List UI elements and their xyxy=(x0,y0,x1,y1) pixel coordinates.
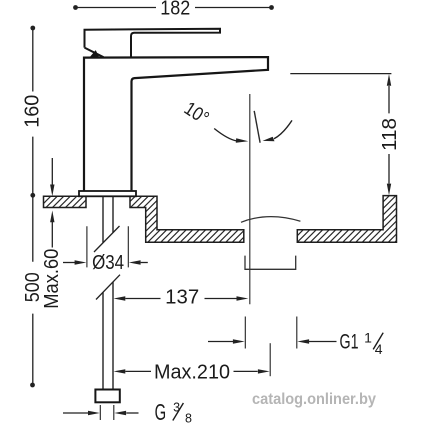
dimension Ø34 right arrow xyxy=(141,262,148,264)
svg-text:Ø34: Ø34 xyxy=(92,252,124,274)
dimension 160 line with end dots xyxy=(32,28,34,195)
dimension 118 top arrow xyxy=(387,74,391,86)
svg-text:182: 182 xyxy=(160,0,190,20)
dimension Max.210 right arrow xyxy=(258,369,270,373)
dimension 182 line with end dots xyxy=(76,7,272,9)
shared dot at deck level xyxy=(30,193,35,198)
118 reference line from spout outlet xyxy=(290,73,391,75)
dimension 160 top dot xyxy=(30,26,35,31)
G1 1/4 label xyxy=(340,330,384,358)
dimension 118 bottom arrow xyxy=(387,184,391,196)
faucet base flange xyxy=(79,191,136,196)
10 degree slanted stream line xyxy=(254,111,260,143)
G3/8 label xyxy=(155,399,192,424)
svg-text:4: 4 xyxy=(375,341,383,357)
dimension 182 right dot xyxy=(269,5,274,10)
countertop left piece (hatched) xyxy=(44,196,87,207)
dimension 137 line xyxy=(125,298,236,300)
dimension Max.210 left arrow xyxy=(114,369,126,373)
supply pipe lower segment xyxy=(103,282,113,390)
dimension 137 right arrow xyxy=(237,296,249,300)
dimension G1 1/4 left arrow xyxy=(208,341,233,343)
svg-text:Max.60: Max.60 xyxy=(41,249,63,309)
pipe break slash upper xyxy=(94,226,120,252)
10 degree right arc arrow xyxy=(274,120,292,138)
dimension G1 1/4 right arrow xyxy=(309,341,337,343)
dimension Ø34 extension lines xyxy=(87,226,128,267)
dimension 118 line xyxy=(388,86,390,184)
lever tip triangle xyxy=(91,51,99,57)
faucet body outline xyxy=(84,57,268,191)
countertop middle piece with basin step (hatched) xyxy=(130,196,244,242)
dimension G1 1/4 extension lines xyxy=(245,317,296,349)
10 degree left arc arrow xyxy=(214,129,236,141)
stream centerline xyxy=(249,94,251,304)
dimension 182 left dot xyxy=(73,5,78,10)
basin bottom arc xyxy=(241,217,300,223)
countertop right piece with raised edge (hatched) xyxy=(297,196,396,243)
supply pipe upper segment xyxy=(103,197,113,243)
dimension Max.60 upper arrow (down) xyxy=(51,158,53,185)
dimension 137 left arrow xyxy=(114,296,126,300)
dimension G3/8 extension lines xyxy=(100,405,114,420)
dimension Max.210 extension line xyxy=(269,343,271,376)
svg-text:G1: G1 xyxy=(340,330,359,353)
pipe break slash lower xyxy=(96,275,120,300)
svg-text:1: 1 xyxy=(364,330,372,346)
faucet lever handle xyxy=(85,29,221,57)
dimension Max.60 lower arrow (up) xyxy=(51,222,53,248)
dimension Ø34 left arrow xyxy=(63,262,75,264)
svg-text:160: 160 xyxy=(22,95,44,128)
svg-text:10°: 10° xyxy=(180,98,212,129)
drain tailpiece xyxy=(245,256,296,270)
G3/8 connector block xyxy=(95,390,119,403)
svg-text:catalog.onliner.by: catalog.onliner.by xyxy=(252,391,376,408)
svg-text:8: 8 xyxy=(185,412,192,424)
svg-text:Max.210: Max.210 xyxy=(154,362,230,384)
dimension G3/8 left arrow xyxy=(63,412,88,414)
dimension G3/8 right arrow xyxy=(126,412,138,414)
svg-text:118: 118 xyxy=(379,118,401,151)
svg-text:3: 3 xyxy=(173,401,180,415)
dimension 500 bottom dot xyxy=(30,383,35,388)
dimension 500 line xyxy=(32,195,34,385)
svg-text:G: G xyxy=(155,399,167,424)
dimension Max.210 line xyxy=(125,370,257,372)
svg-text:137: 137 xyxy=(165,287,199,309)
watermark catalog.onliner.by xyxy=(252,391,376,408)
